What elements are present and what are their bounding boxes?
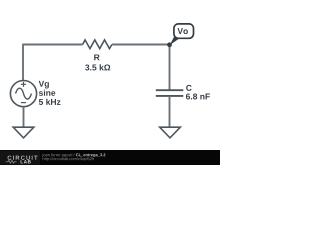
label C name (186, 85, 192, 91)
label flag Vo: pointer tail (170, 36, 180, 45)
footer credit line 1 (42, 153, 74, 157)
label flag Vo: rounded box (174, 24, 194, 38)
label 5 kHz (39, 99, 61, 105)
logo LAB wordmark (21, 160, 31, 163)
label 6.8 nF value (186, 93, 210, 99)
label R value name (94, 54, 99, 60)
label Vg (39, 81, 49, 89)
wire: source bottom to left ground (23, 107, 25, 128)
wire: resistor right lead to output node (112, 44, 170, 46)
footer url line 2 (43, 157, 94, 161)
capacitor C plates (156, 90, 184, 96)
label 3.5 kOhm value (85, 64, 110, 70)
logo resistor squiggle (6, 160, 17, 163)
node Vo junction dot (167, 42, 172, 47)
voltage source Vg circle (10, 81, 36, 107)
label flag Vo: text (177, 28, 187, 34)
voltage source sine symbol (16, 88, 32, 99)
voltage source plus sign (21, 82, 26, 87)
label sine (39, 90, 55, 96)
ground symbol left (13, 127, 34, 138)
logo CIRCUIT wordmark (8, 156, 38, 160)
voltage source minus sign (21, 102, 26, 104)
wire: capacitor bottom plate down to right ground (169, 96, 171, 127)
ground symbol right (160, 127, 181, 138)
footer logo backdrop (0, 151, 40, 165)
wire: left vertical from top corner down to source (22, 45, 24, 81)
wire: output node down to capacitor top plate (169, 45, 171, 90)
resistor R zigzag (83, 40, 112, 49)
footer black bar (0, 150, 220, 165)
footer credit line 1 bold part (76, 153, 105, 157)
wire: top horizontal, corner to resistor left lead (22, 44, 82, 46)
